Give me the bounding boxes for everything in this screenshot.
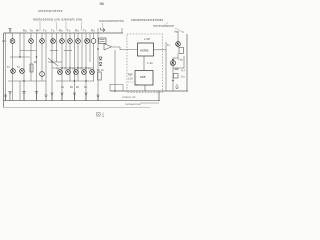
svg-text:4.7: 4.7 — [181, 69, 185, 73]
svg-text:2.5V: 2.5V — [128, 78, 133, 81]
svg-text:nausnamsexes: nausnamsexes — [99, 19, 124, 23]
svg-text:Tu: Tu — [30, 29, 34, 33]
svg-text:Tn: Tn — [51, 29, 55, 33]
svg-text:Tr: Tr — [9, 29, 12, 33]
svg-text:Tn: Tn — [67, 29, 71, 33]
svg-text:Tnn: Tnn — [178, 58, 183, 62]
svg-text:REF: REF — [128, 74, 133, 77]
svg-text:Vcc: Vcc — [174, 30, 179, 34]
svg-text:nunsemne: nunsemne — [125, 102, 141, 106]
svg-text:vanaxesnamermas: vanaxesnamermas — [131, 18, 163, 22]
svg-text:Tn: Tn — [43, 29, 47, 33]
svg-text:Rr: Rr — [36, 29, 39, 33]
svg-text:urnamsnnexes: urnamsnnexes — [38, 9, 63, 13]
svg-text:Tn: Tn — [83, 29, 87, 33]
svg-text:Ru: Ru — [23, 29, 27, 33]
svg-text:nemesanxa ure arenam sne: nemesanxa ure arenam sne — [33, 18, 82, 22]
svg-text:unsxn.nz: unsxn.nz — [122, 95, 136, 99]
svg-text:nevenmasne: nevenmasne — [153, 24, 174, 28]
svg-text:1.41: 1.41 — [147, 61, 153, 65]
svg-text:Rn: Rn — [75, 29, 79, 33]
svg-text:Rn: Rn — [59, 29, 63, 33]
svg-text:Rn: Rn — [91, 29, 95, 33]
svg-text:nse: nse — [140, 75, 146, 79]
svg-text:Cn: Cn — [181, 75, 185, 79]
svg-text:1.08: 1.08 — [144, 37, 150, 41]
svg-text:Rn Cn: Rn Cn — [97, 69, 104, 72]
svg-text:nsme: nsme — [140, 48, 149, 52]
